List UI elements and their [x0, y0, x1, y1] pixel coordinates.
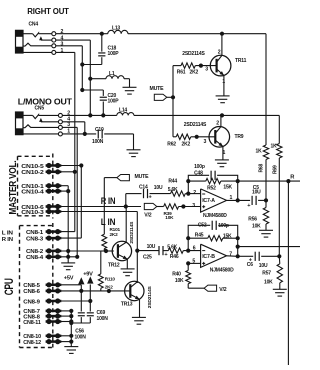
svg-text:15K: 15K	[223, 233, 232, 239]
svg-text:3: 3	[204, 139, 207, 145]
svg-text:CN10-2: CN10-2	[21, 170, 43, 176]
svg-text:R46: R46	[170, 254, 179, 260]
svg-text:CN8-4: CN8-4	[26, 255, 43, 261]
svg-text:CN10-5: CN10-5	[21, 164, 43, 170]
svg-text:10U: 10U	[252, 190, 261, 196]
svg-text:2: 2	[218, 49, 221, 55]
svg-text:MASTER VOL.: MASTER VOL.	[7, 161, 19, 215]
svg-text:R57: R57	[262, 271, 271, 277]
svg-text:100p: 100p	[218, 223, 229, 229]
svg-text:100P: 100P	[108, 51, 120, 57]
svg-text:TR13: TR13	[121, 301, 133, 307]
svg-text:2K2: 2K2	[182, 142, 191, 148]
svg-text:R110: R110	[105, 277, 116, 282]
svg-text:R52: R52	[207, 186, 216, 192]
svg-text:CPU: CPU	[4, 278, 17, 295]
svg-text:10K: 10K	[175, 278, 184, 284]
svg-text:C48: C48	[194, 170, 203, 176]
svg-text:R68: R68	[259, 164, 265, 173]
svg-text:NJM4580D: NJM4580D	[203, 213, 227, 219]
svg-text:2SD2114S: 2SD2114S	[147, 285, 153, 308]
svg-text:2: 2	[216, 120, 219, 126]
svg-text:2: 2	[61, 29, 64, 35]
svg-text:L IN: L IN	[2, 231, 13, 237]
svg-text:10K: 10K	[252, 223, 261, 229]
svg-text:C10: C10	[95, 127, 104, 133]
svg-text:TR11: TR11	[235, 58, 247, 64]
svg-text:3: 3	[61, 41, 64, 47]
svg-text:TR9: TR9	[235, 134, 244, 140]
svg-text:5.6K: 5.6K	[168, 187, 178, 193]
svg-text:CN8-9: CN8-9	[23, 299, 40, 305]
svg-text:1: 1	[61, 48, 64, 54]
svg-text:CN8-12: CN8-12	[23, 340, 41, 346]
svg-text:MUTE: MUTE	[150, 86, 165, 92]
svg-text:C52: C52	[198, 223, 207, 229]
svg-text:TR12: TR12	[108, 263, 120, 269]
svg-text:R62: R62	[167, 141, 176, 147]
svg-text:IC7-B: IC7-B	[202, 254, 215, 260]
svg-text:L/MONO OUT: L/MONO OUT	[18, 96, 73, 106]
svg-text:+5V: +5V	[64, 276, 74, 282]
svg-text:100P: 100P	[108, 98, 120, 104]
svg-text:V/2: V/2	[219, 287, 227, 293]
svg-text:1K: 1K	[271, 143, 278, 149]
svg-text:CN8-6: CN8-6	[23, 289, 40, 295]
svg-text:100N: 100N	[97, 316, 109, 322]
svg-text:R69: R69	[273, 165, 279, 174]
svg-text:CN5: CN5	[35, 105, 45, 111]
svg-text:100N: 100N	[75, 335, 87, 341]
svg-text:2SD2114S: 2SD2114S	[182, 51, 205, 57]
svg-text:CN8-11: CN8-11	[23, 320, 41, 326]
svg-text:2K2: 2K2	[190, 70, 199, 76]
svg-text:CN8-5: CN8-5	[23, 283, 40, 289]
svg-text:10K: 10K	[165, 215, 174, 220]
svg-text:R IN: R IN	[101, 196, 116, 206]
svg-text:IC7-A: IC7-A	[202, 198, 215, 204]
svg-text:100N: 100N	[92, 139, 104, 145]
svg-text:R61: R61	[177, 70, 186, 76]
svg-text:2: 2	[193, 190, 196, 196]
svg-text:10U: 10U	[259, 263, 268, 269]
svg-text:6: 6	[193, 246, 196, 252]
svg-text:7: 7	[229, 252, 232, 258]
svg-text:3: 3	[205, 66, 208, 72]
svg-text:R56: R56	[248, 216, 257, 222]
svg-text:R44: R44	[168, 179, 177, 185]
svg-text:RIGHT OUT: RIGHT OUT	[27, 6, 69, 16]
svg-text:+9V: +9V	[83, 272, 93, 278]
svg-text:2SD2114S: 2SD2114S	[184, 122, 207, 128]
svg-text:R45: R45	[195, 233, 204, 239]
svg-text:V/2: V/2	[144, 213, 152, 219]
svg-text:100p: 100p	[194, 164, 205, 170]
svg-text:CN8-1: CN8-1	[26, 230, 43, 236]
svg-text:C25: C25	[143, 255, 152, 261]
svg-text:C6: C6	[247, 262, 253, 268]
svg-text:CN8-3: CN8-3	[26, 236, 43, 242]
svg-text:1: 1	[223, 150, 226, 156]
svg-text:CN10-3: CN10-3	[21, 210, 43, 216]
svg-text:1: 1	[222, 79, 225, 85]
svg-text:10U: 10U	[147, 244, 156, 250]
svg-text:5.6K: 5.6K	[167, 245, 177, 251]
svg-text:NJM4580D: NJM4580D	[210, 267, 234, 273]
svg-text:10K: 10K	[264, 280, 273, 286]
svg-text:R40: R40	[172, 272, 181, 278]
svg-text:C14: C14	[139, 184, 148, 190]
svg-text:1K: 1K	[256, 149, 263, 155]
svg-text:2K2: 2K2	[110, 232, 119, 237]
svg-text:2SD2114S: 2SD2114S	[129, 221, 135, 244]
svg-text:3: 3	[192, 203, 195, 209]
svg-text:CN4: CN4	[29, 21, 39, 27]
svg-text:R IN: R IN	[2, 237, 13, 243]
svg-text:MUTE: MUTE	[135, 174, 150, 180]
svg-text:CN10-4: CN10-4	[21, 189, 43, 195]
svg-text:L IN: L IN	[101, 217, 116, 227]
svg-text:15K: 15K	[223, 185, 232, 191]
svg-text:10U: 10U	[154, 185, 163, 191]
